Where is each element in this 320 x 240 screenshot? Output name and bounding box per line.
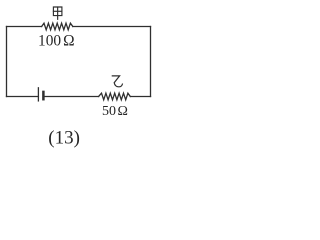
wire bottom-left segment: [7, 96, 39, 98]
resistor 甲 100Ω zigzag: [42, 23, 73, 30]
wire left side: [6, 27, 8, 97]
wire right side: [150, 27, 152, 97]
wire top-left segment: [7, 26, 42, 28]
svg-text:100Ω: 100Ω: [38, 32, 75, 49]
label 乙 (drawn glyph): [112, 76, 122, 87]
svg-text:(13): (13): [48, 127, 80, 148]
battery long thin plate: [37, 88, 39, 101]
wire bottom-middle segment: [43, 96, 98, 98]
resistor 乙 50Ω zigzag: [99, 93, 131, 100]
label 甲 (drawn glyph): [53, 7, 62, 19]
wire bottom-right segment: [130, 96, 150, 98]
svg-text:50Ω: 50Ω: [102, 104, 128, 119]
battery short thick plate: [42, 92, 45, 99]
wire top-right segment: [73, 26, 151, 28]
